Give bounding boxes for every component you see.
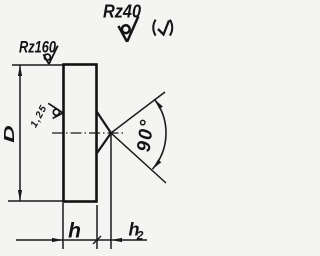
svg-text:Rz160: Rz160 xyxy=(19,39,57,57)
washer outline xyxy=(64,65,97,202)
extension line h left xyxy=(62,203,64,249)
countersink cone edge upper xyxy=(97,112,111,133)
extension line h2 from cone vertex xyxy=(110,133,112,249)
angle extension line upper xyxy=(111,92,165,133)
svg-text:Rz40: Rz40 xyxy=(103,2,141,22)
countersink cone edge lower xyxy=(97,133,111,153)
extension line h right xyxy=(96,205,98,249)
centerline xyxy=(52,132,124,134)
arc arrow top xyxy=(154,99,163,109)
dimension h2 arrow xyxy=(111,238,122,242)
dimension D arrow top xyxy=(18,65,22,76)
angle dimension arc xyxy=(153,99,166,169)
svg-text:2: 2 xyxy=(136,229,144,243)
angle extension line lower xyxy=(111,133,166,183)
dimension D arrow bottom xyxy=(18,190,22,201)
D extension line bottom xyxy=(8,200,63,202)
dimension h/h2 line xyxy=(16,239,147,241)
dimension D line xyxy=(19,65,21,201)
roughness symbol Rz160 xyxy=(43,46,57,64)
dimension tick at 97 xyxy=(93,236,101,244)
rest-of-surfaces sign xyxy=(153,20,172,36)
svg-text:h: h xyxy=(68,220,81,243)
roughness symbol on left face xyxy=(48,103,63,118)
arc arrow bottom xyxy=(153,159,162,169)
roughness symbol Rz40 xyxy=(118,16,138,42)
svg-text:D: D xyxy=(2,124,18,142)
dimension h arrow xyxy=(52,238,63,242)
svg-text:90°: 90° xyxy=(134,118,159,154)
top surface extension line xyxy=(12,64,63,66)
